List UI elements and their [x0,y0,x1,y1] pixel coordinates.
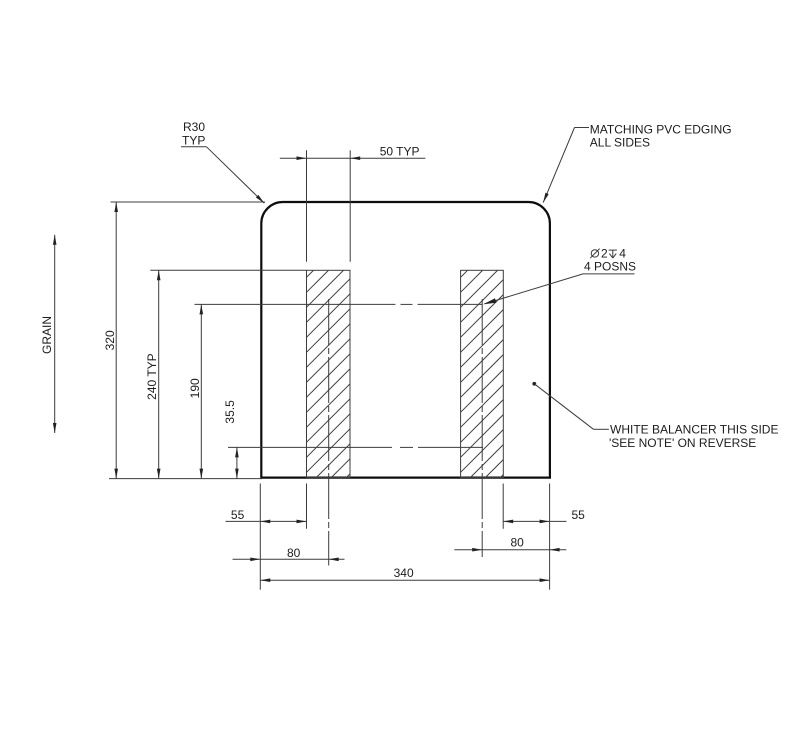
svg-text:ALL SIDES: ALL SIDES [590,135,650,149]
svg-text:320: 320 [103,330,117,350]
svg-text:'SEE NOTE' ON REVERSE: 'SEE NOTE' ON REVERSE [609,436,756,450]
centerline slot 2 vertical [481,299,483,557]
svg-text:80: 80 [287,546,301,560]
extension line slot1 left top [306,150,308,261]
hole centerline horizontal lower (y=447) [228,446,483,448]
hole centerline horizontal upper (y=304) [195,303,483,305]
svg-text:4 POSNS: 4 POSNS [584,259,636,273]
dimension 80 left [233,546,345,561]
dimension 80 right [454,535,566,551]
svg-text:GRAIN: GRAIN [40,316,54,354]
svg-text:340: 340 [394,566,414,580]
extension line slot1 right top [349,150,351,261]
dimension 340 [260,566,549,582]
svg-text:80: 80 [511,535,525,549]
svg-text:WHITE BALANCER THIS SIDE: WHITE BALANCER THIS SIDE [610,423,778,437]
dimension 190 [188,304,203,478]
grain direction arrow [40,235,57,433]
svg-text:55: 55 [231,508,245,522]
extension line slot top (240) [150,269,306,271]
slot 2 hatched groove [461,235,504,518]
dimension 50 TYP [280,145,426,160]
extension line panel right bottom [549,484,551,590]
dimension 240 TYP [145,270,160,478]
leader note MATCHING PVC EDGING / ALL SIDES [543,122,731,202]
svg-text:MATCHING PVC EDGING: MATCHING PVC EDGING [590,122,732,136]
extension line top edge left [111,201,266,203]
leader note R30 TYP [181,120,264,203]
extension line slot2 right bottom [502,484,504,529]
panel outline (bold, rounded top corners) [261,202,550,478]
extension line slot1 left bottom [306,484,308,529]
dimension 55 right [503,508,585,523]
centerline slot 1 vertical [328,299,330,566]
slot 1 hatched groove [307,234,351,518]
svg-text:TYP: TYP [182,133,205,147]
svg-text:35.5: 35.5 [223,400,237,424]
svg-text:190: 190 [188,378,202,398]
svg-text:55: 55 [572,508,586,522]
extension line panel left bottom [259,484,261,590]
dimension 35.5 [223,400,239,479]
leader note WHITE BALANCER [532,382,778,450]
dimension 55 left [226,508,307,523]
dimension 320 [103,202,118,479]
extension line bottom edge left [109,478,262,480]
svg-text:240 TYP: 240 TYP [145,353,159,399]
svg-text:R30: R30 [183,120,205,134]
svg-text:50 TYP: 50 TYP [380,145,420,159]
hole callout dia 2 depth 4, 4 POSNS [483,247,636,305]
